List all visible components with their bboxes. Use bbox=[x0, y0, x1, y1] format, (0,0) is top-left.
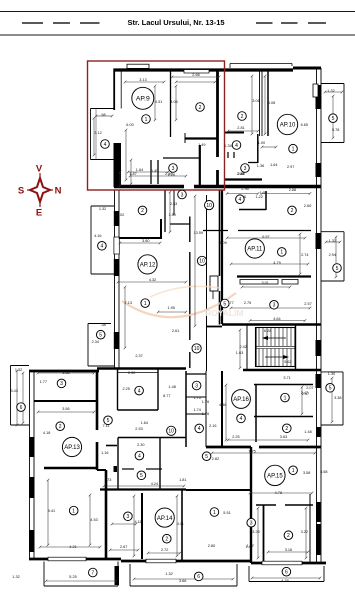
AP.13 label bbox=[62, 437, 81, 456]
svg-text:1.64: 1.64 bbox=[136, 168, 143, 172]
svg-text:7.75: 7.75 bbox=[248, 450, 255, 454]
AP.9 room2 bottom wall bbox=[185, 137, 217, 139]
room 2 bbox=[196, 103, 205, 112]
AP.13 top wall bbox=[29, 370, 99, 373]
svg-text:3: 3 bbox=[181, 192, 184, 198]
AP.9 top window bump bbox=[127, 64, 149, 68]
svg-text:2.37: 2.37 bbox=[135, 354, 142, 358]
svg-text:4.24: 4.24 bbox=[151, 482, 158, 486]
svg-text:3.43: 3.43 bbox=[11, 389, 18, 393]
svg-text:1.49: 1.49 bbox=[198, 143, 205, 147]
svg-text:N: N bbox=[55, 186, 62, 197]
AP.16 kitchen walls bbox=[185, 371, 187, 447]
svg-text:1.34: 1.34 bbox=[224, 144, 231, 148]
room 2 bbox=[56, 422, 65, 431]
dimension labels bbox=[11, 73, 342, 583]
svg-text:AP.9: AP.9 bbox=[136, 96, 150, 103]
svg-text:3.71: 3.71 bbox=[283, 376, 290, 380]
svg-text:3.12: 3.12 bbox=[94, 131, 101, 135]
entrance door leaf bbox=[210, 276, 218, 291]
svg-text:6.65: 6.65 bbox=[301, 123, 308, 127]
room 5 bbox=[221, 299, 230, 308]
svg-text:2.25: 2.25 bbox=[232, 435, 239, 439]
svg-text:3.56: 3.56 bbox=[62, 407, 69, 411]
room 1 bbox=[281, 393, 290, 402]
left wall pier B1 bbox=[114, 211, 120, 226]
svg-text:2.34: 2.34 bbox=[92, 340, 99, 344]
svg-text:6: 6 bbox=[285, 570, 288, 576]
svg-text:5: 5 bbox=[332, 116, 335, 122]
svg-text:S: S bbox=[18, 186, 24, 197]
AP.12 / AP.13 divider wall bbox=[97, 367, 186, 369]
svg-text:ROYALIM: ROYALIM bbox=[205, 308, 243, 318]
AP.9 bath top wall bbox=[163, 157, 200, 159]
svg-text:2.26: 2.26 bbox=[168, 173, 175, 177]
AP.16 hall wall bbox=[255, 385, 257, 443]
svg-text:1: 1 bbox=[213, 510, 216, 516]
svg-text:2.33: 2.33 bbox=[170, 202, 177, 206]
corridor wall mid bbox=[206, 195, 208, 371]
AP.13 bottom balcony room 7 bbox=[43, 562, 45, 587]
svg-text:1: 1 bbox=[144, 301, 147, 307]
svg-text:4: 4 bbox=[101, 244, 104, 250]
svg-text:2.30: 2.30 bbox=[128, 371, 135, 375]
AP.12 room3 walls bbox=[173, 190, 175, 215]
svg-text:1: 1 bbox=[280, 250, 283, 256]
AP.9 room1/room3 wall bbox=[199, 145, 201, 186]
svg-text:1.22: 1.22 bbox=[256, 195, 263, 199]
room 4 bbox=[237, 414, 246, 423]
compass rose bbox=[27, 173, 53, 207]
svg-text:2.72: 2.72 bbox=[161, 548, 168, 552]
AP.12 room2/3 partition bbox=[164, 190, 166, 232]
svg-text:3: 3 bbox=[244, 166, 247, 172]
AP.11 left small wall bbox=[221, 190, 223, 324]
dim lines AP.9 bbox=[125, 81, 164, 83]
AP.10 room4 L wall bbox=[225, 132, 244, 134]
room 7 bbox=[89, 568, 98, 577]
svg-text:8.77: 8.77 bbox=[163, 394, 170, 398]
svg-text:5.62: 5.62 bbox=[284, 360, 291, 364]
stairs bottom wall bbox=[243, 369, 321, 372]
svg-text:6.28: 6.28 bbox=[264, 329, 271, 333]
AP.13 right wall bbox=[96, 371, 99, 430]
svg-text:2.67: 2.67 bbox=[120, 545, 127, 549]
svg-text:2.25: 2.25 bbox=[123, 387, 130, 391]
svg-text:AP.10: AP.10 bbox=[280, 123, 296, 129]
svg-text:AP.14: AP.14 bbox=[157, 516, 173, 522]
room 10 bbox=[197, 256, 206, 265]
street axis dashed line bbox=[22, 22, 43, 24]
svg-text:2.60: 2.60 bbox=[304, 204, 311, 208]
svg-text:1.32: 1.32 bbox=[329, 239, 336, 243]
AP.10 hall wall bbox=[257, 134, 259, 163]
room 1 bbox=[141, 299, 150, 308]
room 3 bbox=[192, 381, 201, 390]
svg-text:4.53: 4.53 bbox=[90, 518, 97, 522]
AP.10 small jamb bbox=[227, 152, 229, 158]
room 3 bbox=[57, 379, 66, 388]
svg-text:1.48: 1.48 bbox=[304, 430, 311, 434]
stairwell bbox=[256, 328, 295, 367]
corridor room3 top wall bbox=[186, 373, 206, 375]
svg-text:1.77: 1.77 bbox=[40, 380, 47, 384]
svg-text:AP.15: AP.15 bbox=[267, 474, 283, 480]
svg-text:13.59: 13.59 bbox=[194, 231, 204, 235]
svg-text:2.74: 2.74 bbox=[301, 253, 308, 257]
svg-text:1.64: 1.64 bbox=[270, 163, 277, 167]
dim AP.13 bbox=[38, 372, 94, 374]
svg-text:3.80: 3.80 bbox=[142, 239, 149, 243]
svg-text:3.01: 3.01 bbox=[262, 281, 269, 285]
svg-text:6.00: 6.00 bbox=[126, 123, 133, 127]
svg-text:4.11: 4.11 bbox=[134, 520, 141, 524]
AP.14/AP.15 wall bbox=[250, 447, 252, 563]
corridor/AP.11 wall bbox=[219, 190, 221, 276]
svg-text:1.16: 1.16 bbox=[101, 451, 108, 455]
room 1 bbox=[289, 144, 298, 153]
room 5 bbox=[333, 264, 342, 273]
AP.16 room1/2 wall bbox=[254, 416, 313, 418]
right exterior wall double line bbox=[316, 68, 318, 563]
svg-text:1.45: 1.45 bbox=[151, 169, 158, 173]
svg-text:3: 3 bbox=[172, 166, 175, 172]
svg-text:3.63: 3.63 bbox=[280, 435, 287, 439]
AP.15 bottom wall bbox=[251, 562, 326, 565]
svg-text:1.32: 1.32 bbox=[99, 207, 106, 211]
svg-text:2: 2 bbox=[241, 114, 244, 120]
AP.16 left wall bbox=[221, 371, 223, 447]
svg-text:1.00: 1.00 bbox=[258, 141, 265, 145]
dim AP.11 bbox=[227, 237, 305, 239]
bottom wall left (AP.13) bbox=[29, 558, 121, 561]
svg-text:6: 6 bbox=[20, 405, 23, 411]
svg-text:3: 3 bbox=[250, 521, 253, 527]
room 3 bbox=[169, 164, 178, 173]
svg-text:5.25: 5.25 bbox=[69, 575, 76, 579]
AP.10 label bbox=[277, 114, 297, 134]
svg-text:2.88: 2.88 bbox=[289, 188, 296, 192]
svg-text:4.78: 4.78 bbox=[275, 491, 282, 495]
AP.13 room2/1 wall bbox=[44, 467, 97, 469]
svg-text:1.70: 1.70 bbox=[194, 396, 201, 400]
AP.12 balcony room 4 bbox=[91, 205, 114, 207]
AP.13/AP.14 wall lower bbox=[105, 470, 108, 559]
svg-text:4.39: 4.39 bbox=[281, 579, 288, 583]
svg-text:2.07: 2.07 bbox=[306, 386, 313, 390]
svg-text:3: 3 bbox=[127, 514, 130, 520]
svg-text:3.06: 3.06 bbox=[170, 100, 177, 104]
AP.12 kitchen wall bbox=[160, 219, 162, 239]
AP.9 room1/room2 partition bbox=[170, 71, 172, 137]
svg-text:2.81: 2.81 bbox=[237, 126, 244, 130]
room 4 bbox=[232, 141, 241, 150]
AP.15 room3/2 wall bbox=[263, 505, 265, 562]
room 2 bbox=[238, 112, 247, 121]
svg-text:2: 2 bbox=[59, 424, 62, 430]
AP.16 label bbox=[232, 390, 251, 409]
svg-text:1.02: 1.02 bbox=[117, 213, 124, 217]
svg-text:2: 2 bbox=[165, 537, 168, 543]
svg-text:4: 4 bbox=[239, 197, 242, 203]
svg-text:3.22: 3.22 bbox=[301, 530, 308, 534]
room 10 bbox=[192, 344, 201, 353]
AP.13 bath room4 bbox=[117, 369, 119, 411]
AP.9 / AP.10 separating wall bbox=[216, 71, 219, 157]
svg-text:2: 2 bbox=[285, 426, 288, 432]
room 1 bbox=[289, 466, 298, 475]
AP.15 label bbox=[265, 465, 285, 485]
AP.14 room3 wall bbox=[141, 493, 143, 559]
svg-text:AP.16: AP.16 bbox=[233, 397, 249, 403]
room 5 bbox=[96, 330, 105, 339]
svg-text:1: 1 bbox=[292, 147, 295, 153]
wall between AP.9 band and AP.12/11 band bbox=[114, 185, 184, 189]
hallway wall bbox=[106, 445, 117, 447]
room 1 bbox=[142, 115, 151, 124]
svg-text:AP.12: AP.12 bbox=[140, 263, 156, 269]
svg-text:3.06: 3.06 bbox=[252, 99, 259, 103]
AP.14 hall top wall bbox=[100, 488, 186, 490]
AP.14 room1 top wall bbox=[186, 489, 251, 491]
svg-text:5.78: 5.78 bbox=[332, 128, 339, 132]
stair side walls bbox=[255, 327, 257, 367]
jog wall bbox=[97, 469, 106, 471]
room 5 bbox=[104, 416, 113, 425]
svg-text:6.97: 6.97 bbox=[262, 235, 269, 239]
AP.11 kitchen counter bbox=[240, 280, 278, 285]
room 3 bbox=[241, 164, 250, 173]
svg-text:10: 10 bbox=[194, 346, 200, 352]
left strip room 5 bbox=[88, 323, 111, 325]
window left bottom bbox=[48, 557, 86, 561]
room 4 bbox=[101, 140, 110, 149]
svg-text:1.76: 1.76 bbox=[202, 400, 209, 404]
room 4 bbox=[135, 451, 144, 460]
svg-text:2.97: 2.97 bbox=[287, 165, 294, 169]
svg-text:10: 10 bbox=[199, 259, 205, 265]
svg-text:4: 4 bbox=[138, 453, 141, 459]
svg-text:2.61: 2.61 bbox=[172, 329, 179, 333]
svg-text:1.32: 1.32 bbox=[15, 368, 22, 372]
svg-text:1.95: 1.95 bbox=[168, 306, 175, 310]
svg-text:Str. Lacul Ursului, Nr. 13-15: Str. Lacul Ursului, Nr. 13-15 bbox=[127, 18, 224, 27]
AP.9 balcony room 4 bbox=[91, 108, 115, 110]
svg-text:1.47: 1.47 bbox=[246, 545, 253, 549]
room 4 bbox=[98, 242, 107, 251]
room 3 bbox=[124, 512, 133, 521]
bath fixtures ledges bbox=[122, 468, 134, 470]
svg-text:3.56: 3.56 bbox=[62, 371, 69, 375]
svg-text:5.41: 5.41 bbox=[48, 509, 55, 513]
room 2 bbox=[163, 534, 172, 543]
svg-text:1: 1 bbox=[72, 508, 75, 514]
AP.16 room1 top wall bbox=[254, 384, 313, 386]
svg-text:3.38: 3.38 bbox=[334, 396, 341, 400]
svg-text:3.58: 3.58 bbox=[320, 470, 327, 474]
svg-text:4.16: 4.16 bbox=[94, 234, 101, 238]
room 5 bbox=[202, 452, 211, 461]
room 3 bbox=[270, 301, 279, 310]
svg-text:V: V bbox=[36, 164, 43, 175]
svg-text:4.32: 4.32 bbox=[149, 278, 156, 282]
svg-text:2: 2 bbox=[287, 533, 290, 539]
svg-text:2.96: 2.96 bbox=[241, 187, 248, 191]
AP.13 room3/2 wall bbox=[34, 400, 97, 402]
svg-text:1.30: 1.30 bbox=[328, 372, 335, 376]
svg-text:3.13: 3.13 bbox=[139, 78, 146, 82]
left wall pier B2 bbox=[114, 259, 120, 276]
svg-text:2.53: 2.53 bbox=[135, 427, 142, 431]
dim AP.16 bbox=[228, 439, 308, 441]
svg-text:3.16: 3.16 bbox=[285, 548, 292, 552]
AP.11 right balcony room 5 bbox=[321, 231, 344, 233]
svg-text:7.13: 7.13 bbox=[125, 301, 132, 305]
room 6 bbox=[17, 403, 26, 412]
svg-text:4.21: 4.21 bbox=[69, 545, 76, 549]
svg-text:4.11: 4.11 bbox=[177, 522, 184, 526]
dim AP.12 bbox=[120, 242, 160, 244]
AP.14 bottom balcony room 6 bbox=[129, 564, 131, 586]
street top edge line bbox=[0, 11, 355, 13]
room 4 bbox=[195, 424, 204, 433]
room 6 bbox=[282, 567, 291, 576]
svg-text:2.82: 2.82 bbox=[212, 457, 219, 461]
svg-text:4.18: 4.18 bbox=[43, 431, 50, 435]
room 4 bbox=[135, 386, 144, 395]
dim AP.15 bbox=[250, 492, 312, 494]
svg-text:4: 4 bbox=[235, 143, 238, 149]
corridor below stairs wall bbox=[205, 371, 207, 447]
street bottom edge line bbox=[0, 34, 355, 36]
AP.14 room1 wall bbox=[181, 490, 183, 562]
AP.14 label bbox=[155, 508, 174, 527]
svg-text:10: 10 bbox=[206, 203, 212, 209]
svg-text:7: 7 bbox=[91, 570, 94, 576]
svg-text:4.64: 4.64 bbox=[273, 317, 280, 321]
room 10 bbox=[205, 201, 214, 210]
AP.9 closet walls bbox=[150, 160, 152, 184]
dim AP.14 bbox=[112, 523, 136, 525]
room 3 bbox=[247, 518, 256, 527]
svg-text:1.64: 1.64 bbox=[141, 421, 148, 425]
AP.10 window bump bbox=[313, 84, 318, 97]
svg-text:2.80: 2.80 bbox=[208, 544, 215, 548]
svg-text:1.32: 1.32 bbox=[165, 572, 172, 576]
svg-text:5: 5 bbox=[205, 454, 208, 460]
AP.14 top walls room4/5 bbox=[118, 437, 186, 439]
svg-text:1.50: 1.50 bbox=[169, 213, 176, 217]
svg-text:4: 4 bbox=[240, 416, 243, 422]
svg-text:2: 2 bbox=[291, 208, 294, 214]
AP.16 / AP.15 separating wall bbox=[206, 446, 251, 449]
AP.14 bottom wall bbox=[121, 560, 251, 563]
svg-text:5: 5 bbox=[329, 386, 332, 392]
AP.12 label bbox=[138, 255, 157, 274]
room 2 bbox=[283, 424, 292, 433]
AP.13 balcony room 6 bbox=[11, 365, 30, 367]
svg-text:5: 5 bbox=[99, 333, 102, 339]
svg-text:1.63: 1.63 bbox=[236, 351, 243, 355]
svg-text:5.51: 5.51 bbox=[223, 511, 230, 515]
svg-text:3.66: 3.66 bbox=[179, 579, 186, 583]
svg-text:6: 6 bbox=[197, 574, 200, 580]
top window AP.9/AP.10 bbox=[184, 70, 209, 73]
AP.10 shaft walls bbox=[259, 71, 261, 136]
svg-text:4.58: 4.58 bbox=[219, 403, 226, 407]
svg-text:2.30: 2.30 bbox=[137, 443, 144, 447]
svg-text:1.32: 1.32 bbox=[327, 89, 334, 93]
room 5 bbox=[326, 384, 335, 393]
svg-text:5: 5 bbox=[336, 266, 339, 272]
svg-text:3: 3 bbox=[273, 303, 276, 309]
svg-text:1.76: 1.76 bbox=[202, 412, 209, 416]
extra dim lines bbox=[172, 76, 219, 78]
left wall band B double line bbox=[114, 190, 116, 368]
svg-text:.38: .38 bbox=[100, 323, 105, 327]
svg-text:3.25: 3.25 bbox=[252, 530, 259, 534]
AP.13 left exterior wall bbox=[29, 371, 31, 559]
AP.11 room4 walls bbox=[239, 209, 266, 211]
room 2 bbox=[138, 206, 147, 215]
AP.9 red highlight rectangle bbox=[88, 61, 225, 190]
AP.15 room2 right wall bbox=[309, 494, 311, 562]
svg-text:1.36: 1.36 bbox=[257, 164, 264, 168]
AP.10 room3 top wall bbox=[225, 178, 262, 180]
room 1 bbox=[210, 508, 219, 517]
svg-text:2.57: 2.57 bbox=[304, 302, 311, 306]
AP.15 bottom balcony room 6 bbox=[249, 581, 324, 583]
corridor bottom wall bbox=[207, 326, 223, 328]
left wall piers AP.13 bbox=[29, 437, 35, 457]
svg-text:4: 4 bbox=[138, 388, 141, 394]
left wall pier (black) bbox=[114, 143, 122, 187]
AP.9 label bbox=[132, 87, 154, 109]
watermark swoosh bbox=[122, 293, 236, 317]
svg-text:1: 1 bbox=[284, 395, 287, 401]
svg-text:3.09: 3.09 bbox=[219, 241, 226, 245]
dim lines AP.10 bbox=[228, 130, 258, 132]
svg-text:1: 1 bbox=[145, 117, 148, 123]
room 10 bbox=[167, 426, 176, 435]
right wall piers bbox=[316, 85, 322, 109]
svg-text:5: 5 bbox=[107, 418, 110, 424]
svg-text:2.16: 2.16 bbox=[209, 424, 216, 428]
svg-text:1.32: 1.32 bbox=[12, 575, 19, 579]
corridor wall left bbox=[189, 217, 191, 243]
svg-text:1.87: 1.87 bbox=[129, 172, 136, 176]
svg-text:4: 4 bbox=[198, 426, 201, 432]
svg-text:2.94: 2.94 bbox=[329, 253, 336, 257]
balcony 7 right pier bbox=[115, 566, 120, 585]
AP.11 room1/room3 wall bbox=[237, 275, 311, 277]
AP.15 room1 bottom walls bbox=[256, 504, 276, 506]
svg-text:2: 2 bbox=[199, 105, 202, 111]
room 3 bbox=[178, 190, 187, 199]
stairs arrows bbox=[264, 337, 286, 339]
room 5 bbox=[329, 114, 338, 123]
room 2 bbox=[288, 206, 297, 215]
svg-text:2.75: 2.75 bbox=[244, 301, 251, 305]
room 1 bbox=[69, 506, 78, 515]
room 2 bbox=[284, 531, 293, 540]
AP.11 room2/room1 wall bbox=[203, 230, 228, 232]
room 4 bbox=[236, 195, 245, 204]
room 1 bbox=[278, 248, 287, 257]
svg-text:3.58: 3.58 bbox=[303, 471, 310, 475]
svg-text:2.66: 2.66 bbox=[192, 73, 199, 77]
svg-text:E: E bbox=[36, 208, 42, 219]
